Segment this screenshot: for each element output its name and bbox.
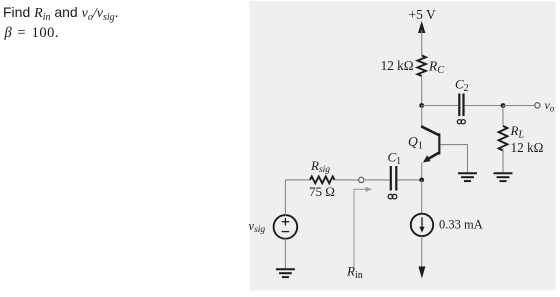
resistor RC 12k bbox=[418, 56, 426, 76]
wire Rsig to input terminal bbox=[335, 179, 359, 181]
wire vsig to Rsig bbox=[285, 179, 310, 181]
transistor Q1: base bar bbox=[438, 133, 440, 154]
transistor Q1: emitter lead with arrow bbox=[428, 153, 440, 160]
node C (emitter node) bbox=[419, 178, 424, 183]
question text line 1 bbox=[3, 4, 119, 23]
wire node C to current source bbox=[421, 180, 423, 214]
wire node B to RL bbox=[502, 106, 504, 127]
capacitor C1 bbox=[391, 166, 397, 191]
Rin indicator arrow bbox=[354, 189, 368, 269]
wire node A down to collector bbox=[421, 106, 423, 128]
current source 0.33 mA bbox=[411, 214, 433, 236]
wire vsig to ground bbox=[284, 238, 286, 269]
node A (collector node) bbox=[419, 103, 424, 108]
current source arrow bbox=[421, 217, 423, 228]
negative supply arrow bbox=[418, 267, 425, 279]
infinity label of C2 bbox=[457, 120, 465, 124]
+5V supply arrow bbox=[418, 21, 425, 33]
wire node B to output terminal bbox=[503, 105, 535, 107]
wire emitter to node C bbox=[421, 163, 423, 181]
wire base to ground bbox=[440, 145, 467, 173]
ground (vsig) bbox=[276, 269, 295, 277]
ground (base) bbox=[458, 173, 477, 181]
wire vsig to main wire bbox=[284, 180, 286, 216]
infinity label of C1 bbox=[388, 194, 397, 199]
wire C1 to node C bbox=[397, 179, 421, 181]
wire input terminal to C1 bbox=[364, 179, 389, 181]
wire current source to negative rail bbox=[421, 236, 423, 270]
svg-text:12 kΩ: 12 kΩ bbox=[381, 58, 414, 73]
ground (RL) bbox=[494, 173, 513, 181]
resistor RL 12k bbox=[499, 126, 508, 150]
question text line 2 bbox=[5, 24, 60, 42]
wire RL to ground bbox=[502, 149, 504, 174]
circuit panel background bbox=[250, 1, 556, 291]
input terminal (open circle) bbox=[359, 177, 364, 182]
wire node A to C2 bbox=[422, 105, 459, 107]
resistor Rsig 75 ohm bbox=[310, 177, 335, 184]
node B (output node) bbox=[501, 103, 506, 108]
voltage source vsig bbox=[274, 215, 298, 239]
wire RC to node A bbox=[421, 76, 423, 106]
output terminal vo (open circle) bbox=[535, 103, 540, 108]
svg-text:75 Ω: 75 Ω bbox=[309, 184, 335, 199]
wire C2 to node B bbox=[465, 105, 504, 107]
svg-text:12 kΩ: 12 kΩ bbox=[511, 140, 544, 155]
wire +5V arrow to RC bbox=[421, 30, 423, 56]
plus sign bbox=[282, 218, 290, 232]
svg-text:+5 V: +5 V bbox=[409, 7, 436, 22]
capacitor C2 bbox=[459, 94, 463, 117]
svg-text:0.33 mA: 0.33 mA bbox=[439, 218, 483, 232]
transistor Q1: collector lead bbox=[421, 126, 439, 135]
